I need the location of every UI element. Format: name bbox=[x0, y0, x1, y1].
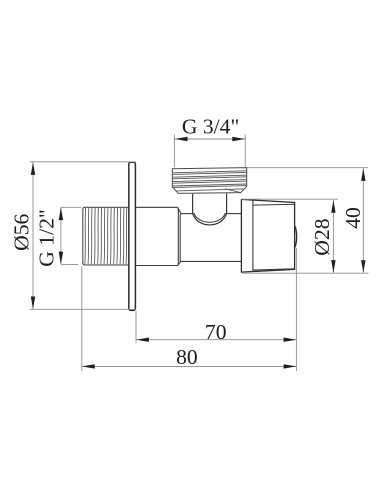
knob inner vertical edge bbox=[252, 200, 254, 271]
dimension O56 arrows bbox=[31, 162, 35, 175]
dimension O28 line bbox=[332, 200, 334, 273]
knob outline (handle, side view) bbox=[241, 199, 294, 272]
bonnet dome inner arc bbox=[194, 213, 226, 222]
svg-text:70: 70 bbox=[205, 320, 227, 344]
svg-text:Ø28: Ø28 bbox=[310, 218, 334, 255]
dimension 40 line bbox=[362, 168, 364, 273]
dimension O56 line bbox=[32, 162, 34, 309]
dimension O28 extension lines bbox=[241, 199, 368, 273]
bonnet dome outer arc bbox=[193, 213, 227, 225]
body step face lines bbox=[177, 208, 179, 265]
thread G3/4 outline (vertical male thread) bbox=[172, 168, 246, 194]
body step chamfer top bbox=[178, 207, 182, 214]
dimension 70 line bbox=[136, 339, 296, 341]
dimension G 1/2 connector lines bbox=[61, 207, 81, 264]
svg-text:G 3/4": G 3/4" bbox=[182, 115, 239, 139]
dimension G 1/2 line bbox=[60, 207, 62, 264]
dimension 70 extension lines bbox=[136, 248, 296, 371]
dimension 80 line bbox=[82, 365, 296, 367]
knob bottom chamfer line bbox=[253, 269, 295, 270]
body step chamfer bottom bbox=[178, 261, 181, 265]
knob side bump arc bbox=[295, 226, 297, 248]
body center section ledges and bottom bbox=[180, 214, 241, 262]
body left section (between flange and step) bbox=[136, 207, 182, 265]
svg-text:G 1/2": G 1/2" bbox=[35, 209, 59, 266]
thread G1/2 hatch lines bbox=[85, 208, 127, 264]
dimension 70 arrows bbox=[136, 338, 149, 342]
dimension O56 extension lines bbox=[30, 162, 136, 309]
svg-text:40: 40 bbox=[341, 207, 365, 229]
dimension G 1/2 arrows bbox=[59, 207, 63, 220]
thread G3/4 crest lines bbox=[172, 171, 246, 193]
dimension 80 arrows bbox=[82, 364, 95, 368]
dimension G 3/4 arrows bbox=[175, 137, 188, 142]
neck below top thread bbox=[193, 193, 227, 213]
dimension O28 arrows bbox=[331, 200, 335, 213]
dimension G 3/4 extension lines bbox=[174, 135, 245, 167]
dimension 40 arrows bbox=[361, 168, 365, 181]
dimension 80 extension line left bbox=[81, 266, 83, 371]
svg-text:Ø56: Ø56 bbox=[10, 214, 34, 251]
dimension G 3/4 line bbox=[175, 138, 245, 140]
flange plate (wall flange, side view) bbox=[129, 162, 136, 310]
knob top chamfer line bbox=[253, 203, 295, 206]
svg-text:80: 80 bbox=[176, 345, 198, 369]
thread G1/2 outline (male thread, left inlet) bbox=[83, 207, 129, 265]
dimension 40 extension line top bbox=[247, 167, 368, 169]
